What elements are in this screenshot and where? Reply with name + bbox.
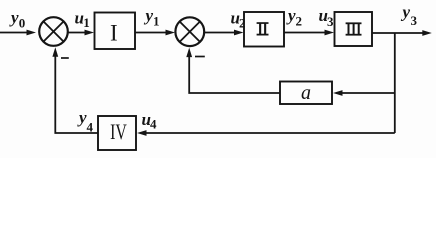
svg-text:y: y xyxy=(401,3,411,22)
svg-text:3: 3 xyxy=(327,14,334,29)
svg-text:y: y xyxy=(77,108,87,127)
svg-text:2: 2 xyxy=(296,14,303,29)
svg-text:IV: IV xyxy=(110,121,127,145)
svg-text:4: 4 xyxy=(87,120,94,135)
svg-text:y: y xyxy=(9,8,19,27)
svg-text:0: 0 xyxy=(19,16,26,31)
svg-text:1: 1 xyxy=(83,15,90,30)
svg-text:1: 1 xyxy=(153,14,160,29)
svg-text:2: 2 xyxy=(239,16,246,31)
svg-text:3: 3 xyxy=(411,13,418,28)
svg-text:I: I xyxy=(110,21,118,46)
svg-text:y: y xyxy=(286,6,296,25)
svg-text:a: a xyxy=(301,82,311,104)
svg-text:y: y xyxy=(144,6,154,25)
svg-text:4: 4 xyxy=(150,117,157,132)
